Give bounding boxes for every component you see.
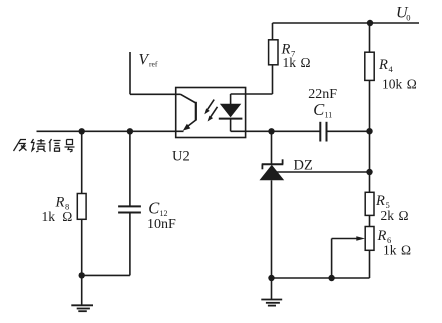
wire R8 top lead <box>81 131 83 193</box>
svg-text:DZ: DZ <box>294 158 313 174</box>
svg-text:4: 4 <box>389 64 394 74</box>
wire Vref vertical <box>129 52 131 94</box>
wire R7 top lead <box>272 23 274 40</box>
light arrow 2 <box>208 107 218 122</box>
wire R8 bottom lead <box>81 219 83 275</box>
ground left <box>71 275 93 311</box>
svg-text:V: V <box>139 52 150 69</box>
wire DZ cathode lead <box>271 131 273 164</box>
node junction top (R7/R4/U0) <box>367 20 373 26</box>
wire C12 top lead <box>129 131 131 206</box>
wire R6 bottom lead <box>369 250 371 278</box>
svg-text:R: R <box>378 57 388 73</box>
transistor Q emitter with arrow <box>183 120 196 131</box>
node junction DZ <box>268 128 274 134</box>
svg-text:R: R <box>377 228 387 244</box>
wire DZ anode lead <box>271 180 273 278</box>
LED cathode bar <box>219 118 243 120</box>
node junction wiper <box>328 275 334 281</box>
char kui <box>31 139 46 152</box>
node junction C12 <box>127 128 133 134</box>
wire Vref horizontal to U2 <box>130 93 181 95</box>
wire R5 to R6 <box>369 215 371 226</box>
svg-text:0: 0 <box>406 13 410 23</box>
transistor Q base bar <box>195 102 197 121</box>
LED cathode lead <box>230 119 232 132</box>
wire R7 bottom lead <box>272 65 274 94</box>
LED anode lead <box>230 94 232 104</box>
zener DZ triangle <box>260 165 285 181</box>
capacitor C11 plates <box>320 122 326 142</box>
resistor R4 <box>365 52 374 80</box>
wire feedback rail left <box>37 130 184 132</box>
label feedback signal (hand-drawn CJK strokes) <box>14 139 75 152</box>
wire right rail LED to C11 <box>231 130 320 132</box>
svg-text:C: C <box>148 198 160 217</box>
wire DZ to R5 node <box>272 171 370 173</box>
wire C12 bottom lead <box>129 213 131 276</box>
LED triangle <box>220 104 241 118</box>
node junction R4/DZ wire <box>366 169 372 175</box>
wire R7 to LED anode <box>231 93 273 95</box>
wire R4 top lead <box>369 23 371 52</box>
zener DZ cathode bar <box>262 159 284 169</box>
resistor R7 <box>269 40 278 65</box>
svg-text:1k Ω: 1k Ω <box>42 209 73 224</box>
resistor R6 <box>365 227 374 251</box>
node junction ground right <box>268 275 274 281</box>
wire top output rail <box>273 22 420 24</box>
char fan <box>14 140 27 152</box>
wire C11 to R4 line <box>327 130 369 132</box>
svg-text:C: C <box>313 100 325 119</box>
wire R4 bottom lead <box>369 80 371 192</box>
wire bottom left rail <box>82 274 130 276</box>
wire wiper vertical <box>331 239 333 279</box>
svg-text:11: 11 <box>325 111 333 120</box>
wiper arrow of R6 <box>332 236 365 241</box>
svg-text:2k Ω: 2k Ω <box>381 208 409 223</box>
node junction R4/C11 rail <box>366 128 372 134</box>
light arrow 1 <box>204 100 214 115</box>
wire bottom right rail <box>272 277 370 279</box>
resistor R5 <box>365 192 374 215</box>
svg-text:U2: U2 <box>172 149 190 165</box>
svg-text:1k Ω: 1k Ω <box>283 55 311 70</box>
capacitor C12 plates <box>118 206 141 212</box>
char xin <box>49 139 61 152</box>
resistor R8 <box>77 194 86 220</box>
svg-text:10nF: 10nF <box>147 217 176 232</box>
svg-text:ref: ref <box>149 60 158 69</box>
svg-text:R: R <box>375 193 385 209</box>
optocoupler U2 box <box>176 88 246 138</box>
char hao <box>65 140 75 153</box>
node junction R8 <box>79 128 85 134</box>
svg-text:10k Ω: 10k Ω <box>382 77 417 92</box>
transistor Q collector diagonal <box>181 94 196 103</box>
node junction ground left <box>79 272 85 278</box>
svg-text:1k Ω: 1k Ω <box>383 243 411 258</box>
ground right <box>261 278 282 306</box>
